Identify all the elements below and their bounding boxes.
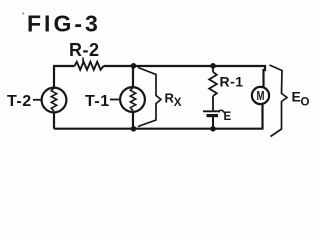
label E with leader bbox=[219, 110, 232, 123]
svg-text:T-1: T-1 bbox=[85, 93, 110, 110]
meter M bbox=[252, 87, 269, 104]
node top of T-1 bbox=[131, 63, 137, 69]
thermistor T-2 bbox=[42, 88, 67, 113]
resistor R-1 bbox=[209, 66, 217, 110]
svg-text:X: X bbox=[174, 97, 182, 109]
brace for Rx bbox=[138, 68, 161, 127]
battery E bbox=[203, 111, 220, 129]
svg-text:E: E bbox=[292, 89, 301, 105]
label R-1 bbox=[220, 74, 244, 90]
svg-text:M: M bbox=[257, 89, 265, 103]
node top of R-1 bbox=[210, 63, 216, 69]
label Rx bbox=[165, 91, 182, 110]
brace for E0 bbox=[270, 65, 288, 137]
title FIG-3 bbox=[27, 11, 101, 37]
label T-2 bbox=[7, 93, 43, 110]
wire left branch bbox=[53, 67, 55, 129]
wire bottom rail bbox=[54, 128, 264, 130]
wire top rail bbox=[53, 65, 266, 67]
svg-text:FIG-3: FIG-3 bbox=[27, 11, 101, 37]
label R-2 bbox=[69, 40, 100, 62]
svg-text:O: O bbox=[301, 97, 310, 109]
label T-1 bbox=[85, 93, 121, 110]
wire meter branch bbox=[263, 65, 266, 129]
label E0 bbox=[292, 89, 310, 109]
svg-text:R-1: R-1 bbox=[220, 74, 244, 90]
scan speck top left bbox=[23, 13, 25, 15]
svg-text:E: E bbox=[224, 111, 232, 123]
wire T-1 branch bbox=[132, 66, 134, 129]
svg-text:R-2: R-2 bbox=[69, 40, 100, 60]
resistor R-2 bbox=[75, 62, 104, 70]
node bottom of T-1 bbox=[131, 126, 137, 132]
node bottom of battery bbox=[210, 126, 216, 132]
thermistor T-1 bbox=[120, 87, 145, 112]
svg-text:T-2: T-2 bbox=[7, 93, 32, 110]
